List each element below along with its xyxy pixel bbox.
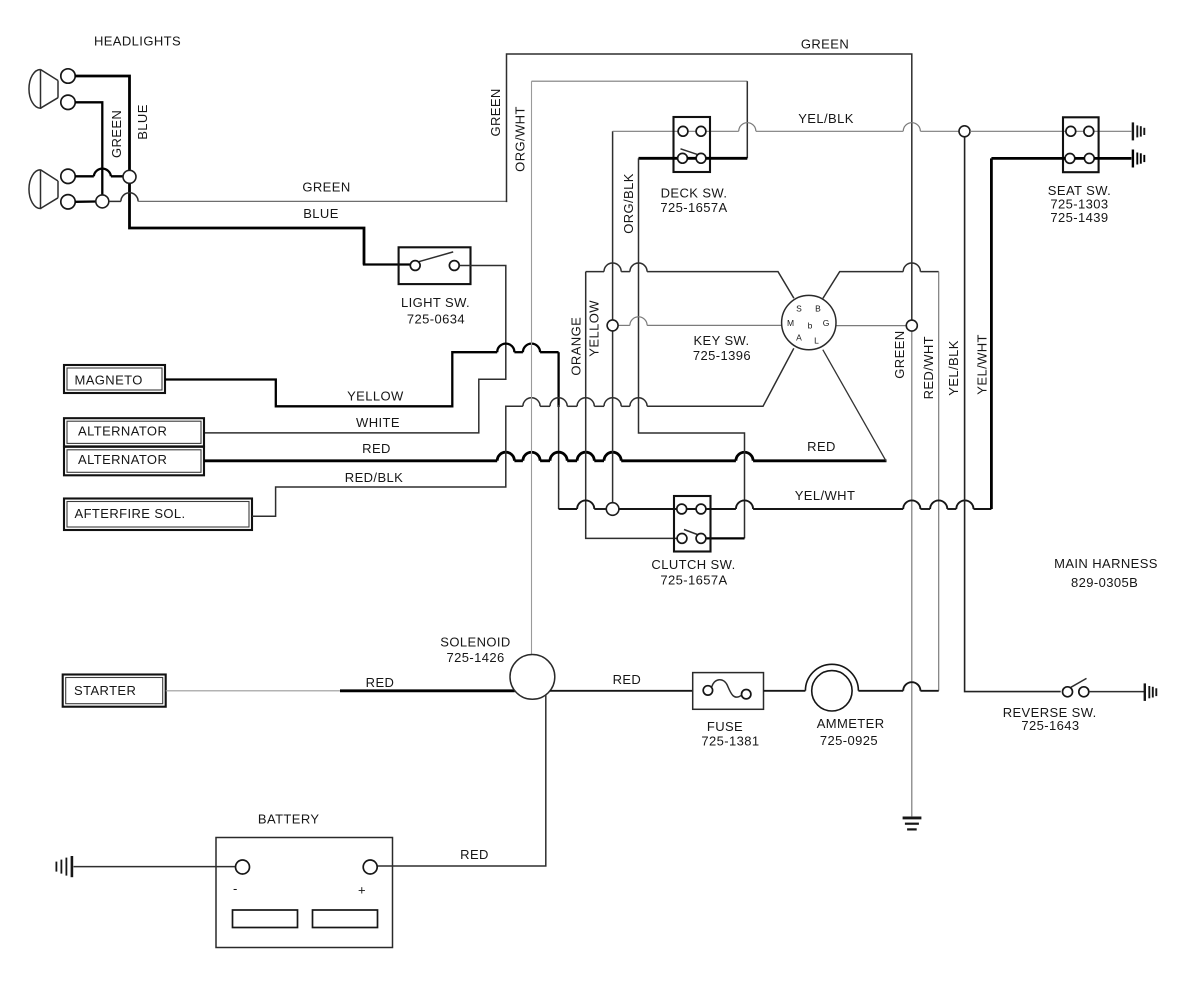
svg-text:MAIN HARNESS: MAIN HARNESS xyxy=(1054,556,1158,571)
wire GREEN long run to top right xyxy=(109,200,121,202)
svg-text:725-1439: 725-1439 xyxy=(1050,210,1108,225)
wire key switch L diagonal xyxy=(823,350,886,462)
svg-text:YEL/WHT: YEL/WHT xyxy=(975,334,990,395)
svg-text:RED: RED xyxy=(366,675,395,690)
svg-text:RED/BLK: RED/BLK xyxy=(345,470,403,485)
wire ORANGE key S run xyxy=(586,271,604,273)
svg-text:RED/WHT: RED/WHT xyxy=(921,336,936,399)
svg-text:YELLOW: YELLOW xyxy=(586,300,601,357)
wire RED/WHT vertical xyxy=(938,272,940,691)
wire org/wht right vertical into deck switch xyxy=(746,81,748,158)
wire YEL/WHT run xyxy=(559,508,578,510)
wire YEL/WHT vertical from seat xyxy=(990,158,993,509)
svg-text:GREEN: GREEN xyxy=(801,37,849,52)
svg-text:YELLOW: YELLOW xyxy=(347,388,404,403)
wire BLUE headlight to light switch xyxy=(75,76,129,170)
clutch switch blade xyxy=(684,530,700,536)
svg-text:WHITE: WHITE xyxy=(356,415,400,430)
wire hop over orgwht right vert xyxy=(739,123,756,132)
svg-text:STARTER: STARTER xyxy=(74,683,136,698)
ground green earth xyxy=(903,818,922,830)
wire YEL/BLK vertical to reverse switch xyxy=(965,137,1061,692)
reverse switch terminals xyxy=(1063,687,1073,697)
wire hop over blue xyxy=(121,193,138,202)
light switch terminals xyxy=(410,261,420,271)
wire seat bottom thick run xyxy=(991,157,1131,160)
wire YELLOW vertical column xyxy=(612,131,614,502)
wire starter to solenoid thin xyxy=(166,690,340,692)
ground seat switch bottom xyxy=(1133,150,1144,168)
ammeter AMMETER symbol xyxy=(812,671,852,711)
svg-text:725-0634: 725-0634 xyxy=(407,311,465,326)
svg-text:RED: RED xyxy=(613,672,642,687)
fuse FUSE box xyxy=(693,673,764,710)
svg-text:KEY SW.: KEY SW. xyxy=(693,333,749,348)
wire RED battery positive to solenoid xyxy=(378,695,546,866)
svg-text:GREEN: GREEN xyxy=(302,180,350,195)
wire ORG/BLK deck switch bottom run xyxy=(639,157,748,160)
svg-text:MAGNETO: MAGNETO xyxy=(75,372,143,387)
svg-text:BATTERY: BATTERY xyxy=(258,811,320,826)
alternator box ALTERNATOR bottom xyxy=(64,447,204,476)
svg-text:RED: RED xyxy=(807,439,836,454)
ground seat switch top xyxy=(1133,122,1144,140)
wire org/wht vertical to solenoid xyxy=(531,81,533,654)
svg-text:S: S xyxy=(796,304,802,314)
svg-text:ALTERNATOR: ALTERNATOR xyxy=(78,424,167,439)
svg-text:M: M xyxy=(787,318,794,328)
wire headlight2 bottom to green node xyxy=(75,200,96,203)
clutch switch CLUTCH SW. box xyxy=(674,496,711,552)
wire GREEN headlight1 bottom down xyxy=(75,102,102,195)
svg-text:YEL/BLK: YEL/BLK xyxy=(798,111,854,126)
wire YEL/BLK thin top run xyxy=(613,130,739,132)
svg-text:ORG/WHT: ORG/WHT xyxy=(513,106,528,172)
svg-text:829-0305B: 829-0305B xyxy=(1071,575,1138,590)
wire WHITE light switch to alternator xyxy=(204,266,506,433)
svg-text:GREEN: GREEN xyxy=(488,88,503,136)
wire RED/BLK afterfire to key switch A xyxy=(252,406,523,516)
wire YELLOW magneto run xyxy=(165,352,497,406)
wire fuse to ammeter xyxy=(764,690,806,692)
wire key M line xyxy=(618,324,630,326)
svg-text:YEL/BLK: YEL/BLK xyxy=(946,340,961,396)
svg-text:AMMETER: AMMETER xyxy=(817,716,885,731)
headlamp 2 terminal pins xyxy=(61,169,75,183)
wire key G line xyxy=(836,325,906,327)
svg-text:RED: RED xyxy=(362,441,391,456)
wire ORG/WHT top run xyxy=(532,80,748,82)
node yellow junction lower xyxy=(606,503,619,516)
wire headlight2 top to blue node xyxy=(75,175,123,177)
node yel/blk junction xyxy=(959,126,970,137)
svg-text:FUSE: FUSE xyxy=(707,719,743,734)
light switch blade xyxy=(418,252,453,262)
svg-text:A: A xyxy=(796,333,802,343)
light switch LIGHT SW. box xyxy=(399,247,471,284)
svg-text:ALTERNATOR: ALTERNATOR xyxy=(78,452,167,467)
svg-text:HEADLIGHTS: HEADLIGHTS xyxy=(94,34,181,49)
wire ammeter to red/wht corner xyxy=(858,690,903,692)
reverse switch blade xyxy=(1070,678,1087,687)
svg-text:725-0925: 725-0925 xyxy=(820,733,878,748)
svg-text:BLUE: BLUE xyxy=(303,206,339,221)
afterfire box AFTERFIRE SOL. xyxy=(64,499,252,531)
wire hop over orgwht vert xyxy=(523,344,540,353)
svg-text:725-1657A: 725-1657A xyxy=(660,573,727,588)
wire org/blk vertical and jog to clutch xyxy=(639,158,745,538)
wire battery negative to ground xyxy=(74,866,235,868)
node blue junction xyxy=(123,170,136,183)
svg-text:725-1657A: 725-1657A xyxy=(660,200,727,215)
deck switch blade xyxy=(681,149,700,155)
wire RED solenoid to fuse xyxy=(550,690,693,692)
deck switch DECK SW. box xyxy=(674,117,711,172)
fuse terminals xyxy=(703,686,712,695)
svg-text:SOLENOID: SOLENOID xyxy=(440,635,510,650)
ground reverse switch xyxy=(1145,683,1157,701)
svg-text:725-1426: 725-1426 xyxy=(447,650,505,665)
svg-text:YEL/WHT: YEL/WHT xyxy=(795,488,856,503)
wire reverse to ground xyxy=(1089,691,1145,693)
svg-text:DECK SW.: DECK SW. xyxy=(661,186,728,201)
svg-text:GREEN: GREEN xyxy=(109,110,124,158)
svg-text:725-1643: 725-1643 xyxy=(1021,718,1079,733)
headlamp 1 symbol xyxy=(29,70,58,109)
battery BATTERY box xyxy=(216,838,393,948)
svg-text:b: b xyxy=(808,320,813,330)
clutch switch terminals xyxy=(677,504,687,514)
seat switch SEAT SW. box xyxy=(1063,117,1099,172)
wire hop over lightsw vert xyxy=(497,344,514,353)
node yellow junction upper xyxy=(607,320,618,331)
svg-text:BLUE: BLUE xyxy=(135,104,150,140)
wire hop over green vert xyxy=(903,123,920,132)
battery terminals xyxy=(236,860,250,874)
svg-text:LIGHT SW.: LIGHT SW. xyxy=(401,295,470,310)
svg-text:CLUTCH SW.: CLUTCH SW. xyxy=(651,557,735,572)
wire RED alternator to key switch L xyxy=(204,459,497,462)
svg-text:AFTERFIRE SOL.: AFTERFIRE SOL. xyxy=(75,506,186,521)
wire green vertical lower xyxy=(911,331,913,816)
wire green horizontal, up, across top, down right xyxy=(138,200,507,202)
svg-text:G: G xyxy=(823,318,830,328)
solenoid SOLENOID circle xyxy=(510,655,555,700)
svg-text:RED: RED xyxy=(460,847,489,862)
headlamp 1 terminal pins xyxy=(61,69,75,83)
wire hop over green xyxy=(94,169,111,177)
svg-text:+: + xyxy=(358,883,366,898)
svg-text:ORANGE: ORANGE xyxy=(569,317,584,376)
wire orange vertical to clutch xyxy=(586,272,678,539)
svg-text:GREEN: GREEN xyxy=(892,330,907,378)
deck switch terminals xyxy=(678,126,688,136)
fuse element curve xyxy=(712,680,742,697)
node green junction right xyxy=(906,320,917,331)
battery cell plates xyxy=(233,910,298,928)
svg-text:725-1396: 725-1396 xyxy=(693,348,751,363)
wire key B to red/wht xyxy=(823,272,903,299)
svg-text:-: - xyxy=(233,881,238,896)
svg-text:725-1381: 725-1381 xyxy=(701,733,759,748)
svg-text:B: B xyxy=(815,304,821,314)
starter box STARTER xyxy=(63,675,166,707)
magneto box MAGNETO xyxy=(64,365,165,393)
node green junction xyxy=(96,195,109,208)
headlamp 2 symbol xyxy=(29,170,58,209)
wire clutch bottom right to org/blk xyxy=(706,537,745,539)
seat switch terminals xyxy=(1066,126,1076,136)
alternator box ALTERNATOR top xyxy=(64,418,204,446)
svg-text:ORG/BLK: ORG/BLK xyxy=(621,173,636,234)
ground battery chassis xyxy=(56,856,72,877)
key switch KEY SW. circle xyxy=(782,295,836,349)
svg-text:L: L xyxy=(814,336,819,346)
wire starter to solenoid thick xyxy=(340,689,515,692)
wire yellow vertical down to yelwht xyxy=(557,352,559,407)
